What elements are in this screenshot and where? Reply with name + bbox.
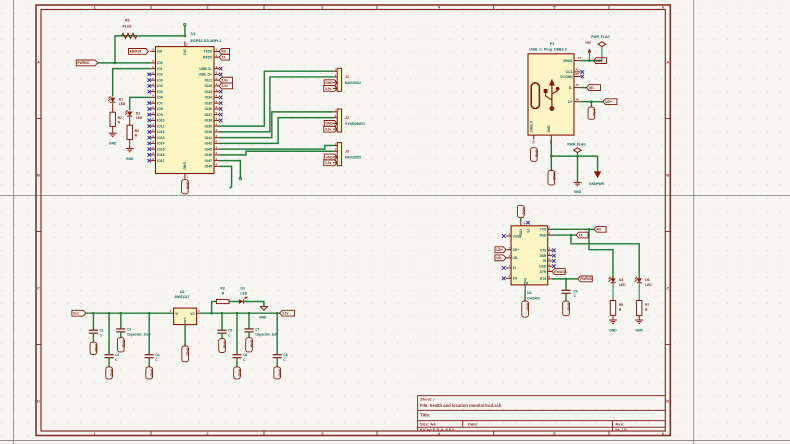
svg-text:RXD: RXD <box>540 233 547 237</box>
svg-text:LED: LED <box>136 116 143 120</box>
svg-text:R4: R4 <box>135 129 139 133</box>
capacitor C2 <box>108 312 111 315</box>
svg-text:D: D <box>666 399 669 404</box>
power label GND below U4 <box>522 301 529 317</box>
svg-text:RXD0: RXD0 <box>203 55 212 59</box>
global label TX at U4 <box>576 232 588 238</box>
wire U1-J1 pin1 <box>219 71 333 126</box>
svg-text:ESP32-S3-WIFI-1: ESP32-S3-WIFI-1 <box>191 38 223 43</box>
LED D1 <box>110 98 115 103</box>
svg-text:S1: S1 <box>531 141 535 145</box>
svg-text:PWR/IO: PWR/IO <box>580 277 593 281</box>
svg-text:DTR: DTR <box>540 270 547 274</box>
svg-text:3.3v: 3.3v <box>282 312 289 316</box>
global label GND at J2 <box>324 121 337 127</box>
svg-text:IO36: IO36 <box>205 107 212 111</box>
svg-text:P1: P1 <box>550 42 555 46</box>
wire U4 GND <box>524 289 526 300</box>
svg-text:IO37: IO37 <box>205 113 212 117</box>
global label EN/RST <box>129 49 149 55</box>
junction VBUS +5V <box>588 59 591 62</box>
svg-text:IO13: IO13 <box>157 136 164 140</box>
wire R2-GND <box>112 126 114 132</box>
svg-text:IO47: IO47 <box>205 159 212 163</box>
global label UD+ <box>603 99 617 105</box>
pin GND bottom <box>184 174 186 179</box>
svg-text:C: C <box>37 286 40 291</box>
global label 3.3v at U1 <box>219 83 233 89</box>
resistor R7 <box>637 301 642 316</box>
svg-text:VBUS: VBUS <box>563 59 573 63</box>
svg-text:KiCad E.D.A. 8.0.0: KiCad E.D.A. 8.0.0 <box>420 427 455 432</box>
wire U2 gnd <box>184 325 186 346</box>
power label GND below U2 <box>182 346 189 362</box>
pin GND P1 <box>550 135 552 139</box>
wire RXD to D6 <box>571 235 639 278</box>
svg-text:R3: R3 <box>221 287 225 291</box>
pin UD+ U4 <box>506 249 511 251</box>
svg-text:A4: A4 <box>578 56 582 60</box>
global label UD+ at U4 <box>495 247 506 253</box>
svg-text:IO17: IO17 <box>157 159 164 163</box>
global label GND at J1 <box>324 80 337 86</box>
capacitor C1 <box>92 312 95 315</box>
wire TXD to D4 <box>589 229 613 278</box>
svg-text:IO9: IO9 <box>157 113 163 117</box>
svg-text:C8: C8 <box>283 353 287 357</box>
svg-text:IO48: IO48 <box>205 165 212 169</box>
svg-text:IO41: IO41 <box>205 136 212 140</box>
pin D- <box>574 87 581 89</box>
svg-text:+5V: +5V <box>585 41 592 45</box>
svg-text:PLUS: PLUS <box>123 24 133 28</box>
junction TXD <box>588 228 591 231</box>
LED D4 <box>610 278 615 283</box>
junction RTS C9 <box>565 278 568 281</box>
svg-text:GND: GND <box>250 340 254 348</box>
svg-text:TXD: TXD <box>540 228 547 232</box>
svg-text:3.3v: 3.3v <box>325 161 332 165</box>
wire RTS <box>552 278 578 280</box>
svg-text:IO11: IO11 <box>157 124 164 128</box>
power GNDPWR <box>594 171 601 178</box>
junction PWR_FLAG bottom <box>576 155 579 158</box>
global label 5.0v at U1 <box>219 77 233 83</box>
global label RX at U4 <box>594 226 606 232</box>
axis horizontal <box>0 195 790 197</box>
svg-text:3.3v: 3.3v <box>325 87 332 91</box>
svg-text:IO45: IO45 <box>205 147 212 151</box>
svg-text:GND: GND <box>526 303 530 311</box>
wire R6-GND <box>612 315 614 319</box>
pin RTS <box>548 278 552 280</box>
wire D- <box>581 87 587 89</box>
global label UD- at U4 <box>495 255 506 261</box>
svg-text:IO1: IO1 <box>157 67 163 71</box>
svg-text:MAX30205: MAX30205 <box>345 156 361 160</box>
svg-text:MAX30102: MAX30102 <box>345 81 361 85</box>
global label PWR/IO <box>76 60 98 66</box>
svg-text:GND: GND <box>121 340 125 348</box>
svg-text:IO8: IO8 <box>157 107 163 111</box>
pin RXD U4 <box>548 234 552 236</box>
svg-text:IO10: IO10 <box>157 119 164 123</box>
svg-text:GND: GND <box>238 369 242 377</box>
power label VCC above U4 <box>518 205 525 217</box>
svg-text:C3: C3 <box>127 327 131 331</box>
svg-text:D-: D- <box>569 86 573 90</box>
svg-text:C5: C5 <box>228 329 232 333</box>
pin VBUS <box>574 60 581 62</box>
svg-text:U2: U2 <box>180 290 185 294</box>
wire 3V3 stub up <box>184 25 186 36</box>
svg-text:GND: GND <box>182 162 186 170</box>
svg-text:PWR/IO: PWR/IO <box>77 61 90 65</box>
svg-text:LED: LED <box>241 291 248 295</box>
junction RXD <box>570 234 573 237</box>
svg-text:EN: EN <box>157 50 162 54</box>
op-amp U1 ESP32 body <box>156 47 215 174</box>
svg-text:B5: B5 <box>576 72 580 76</box>
svg-text:DSR: DSR <box>540 254 547 258</box>
svg-text:IO3: IO3 <box>157 78 163 82</box>
svg-text:Vcc: Vcc <box>73 312 79 316</box>
svg-text:IO46: IO46 <box>205 153 212 157</box>
power flag PWR_FLAG bottom <box>577 152 579 156</box>
svg-text:UD-: UD- <box>589 86 595 90</box>
power label GND below P1 <box>548 171 555 185</box>
svg-text:GND: GND <box>574 190 582 194</box>
global label PWR/IO3 at U4 <box>578 276 593 282</box>
svg-text:D4: D4 <box>619 278 623 282</box>
svg-text:USB_D+: USB_D+ <box>199 73 212 77</box>
wire dangling IO47 <box>219 161 240 179</box>
page edge bottom <box>0 440 790 442</box>
svg-text:IO38: IO38 <box>205 119 212 123</box>
wire Vcc rail <box>86 312 171 314</box>
ground D2 <box>126 147 134 149</box>
pin XI <box>506 267 511 269</box>
capacitor C7 <box>248 312 251 315</box>
svg-text:RTS: RTS <box>540 277 546 281</box>
svg-text:B: B <box>37 173 40 178</box>
svg-text:R5: R5 <box>125 19 129 23</box>
svg-text:CTS: CTS <box>540 249 546 253</box>
svg-text:3.3v: 3.3v <box>221 84 228 88</box>
svg-text:LED: LED <box>119 102 126 106</box>
no-connect XI <box>502 266 506 270</box>
wire GND P1 down <box>550 140 552 171</box>
svg-text:IO7: IO7 <box>157 101 163 105</box>
svg-text:UD-: UD- <box>496 256 502 260</box>
resistor R5 <box>122 33 138 38</box>
svg-text:R7: R7 <box>645 303 649 307</box>
svg-text:GND: GND <box>325 122 333 126</box>
svg-text:J2: J2 <box>345 116 349 120</box>
svg-text:GND: GND <box>126 157 134 161</box>
global label TX at U1 <box>219 54 230 60</box>
svg-text:LED: LED <box>645 283 652 287</box>
svg-text:C: C <box>666 286 669 291</box>
svg-text:IO39: IO39 <box>205 124 212 128</box>
wire D+ <box>581 101 603 103</box>
pin XO <box>506 277 511 279</box>
wire dangling IO48 <box>219 166 232 188</box>
pin D+ <box>574 101 581 103</box>
global label GND at J3 <box>324 154 337 160</box>
wire D6-R7 <box>638 284 640 301</box>
global label Vcc <box>72 310 86 316</box>
wire PWR/IO to IO0 <box>98 62 151 64</box>
svg-text:C6: C6 <box>243 353 247 357</box>
svg-text:C4: C4 <box>155 353 159 357</box>
svg-text:C9: C9 <box>574 289 578 293</box>
global label 3.3v at J3 <box>324 160 338 166</box>
svg-text:EN/RST: EN/RST <box>130 50 142 54</box>
svg-text:D3: D3 <box>241 287 245 291</box>
no-connect CC1 <box>581 70 585 74</box>
pin 3V3 top <box>184 42 186 47</box>
junction D+ <box>590 100 593 103</box>
LED D2 <box>127 112 132 117</box>
resistor R2 <box>110 112 115 126</box>
svg-text:GND: GND <box>110 369 114 377</box>
power +5V <box>588 53 590 61</box>
junction R3 branch <box>210 312 213 315</box>
pin VCONN <box>574 76 581 78</box>
page edge left <box>13 0 15 444</box>
ground D4 <box>609 319 617 321</box>
wire U1-J1 pin2 <box>219 77 333 132</box>
svg-text:AMS1117: AMS1117 <box>175 295 190 299</box>
svg-text:UD+: UD+ <box>496 248 503 252</box>
svg-text:UD+: UD+ <box>605 100 612 104</box>
pin CTS <box>548 249 552 251</box>
LED D6 <box>637 278 642 283</box>
svg-text:R6: R6 <box>619 303 623 307</box>
svg-text:GND: GND <box>223 341 227 349</box>
USB receptacle glyph <box>531 83 539 109</box>
svg-text:D6: D6 <box>645 278 649 282</box>
power label GND below C9 <box>563 301 570 316</box>
USB connector P1 body <box>528 54 574 135</box>
wire D1 net <box>113 69 151 97</box>
svg-text:IO5: IO5 <box>157 90 163 94</box>
junction IO0 <box>114 62 117 65</box>
svg-text:Date:: Date: <box>468 422 478 427</box>
svg-text:A: A <box>37 60 40 65</box>
pin VDD top <box>520 221 522 226</box>
pin DCD <box>548 265 552 267</box>
pin SHIELD <box>533 135 535 139</box>
svg-text:IO35: IO35 <box>205 101 212 105</box>
svg-text:GND: GND <box>259 315 267 319</box>
svg-text:VCC: VCC <box>596 59 604 63</box>
title block frame <box>418 395 666 397</box>
connector J1 <box>337 68 341 91</box>
svg-text:EN/ACK: EN/ACK <box>554 270 567 274</box>
svg-text:IO4: IO4 <box>157 84 163 88</box>
svg-text:IO34: IO34 <box>205 96 212 100</box>
no-connect XO <box>502 277 506 281</box>
svg-text:GND: GND <box>547 125 551 133</box>
svg-text:CH340C: CH340C <box>527 296 541 300</box>
svg-text:VO: VO <box>190 312 195 316</box>
svg-text:Capacitor_1uF: Capacitor_1uF <box>255 332 277 336</box>
svg-text:VCC: VCC <box>521 207 525 215</box>
svg-text:DCD: DCD <box>539 265 547 269</box>
svg-text:XI: XI <box>513 266 516 270</box>
svg-text:UD+: UD+ <box>513 248 520 252</box>
wire R7-GND <box>638 315 640 319</box>
pin RI <box>548 260 552 262</box>
svg-text:GNDPWR: GNDPWR <box>589 182 605 186</box>
svg-text:RX: RX <box>221 50 226 54</box>
svg-text:3V3: 3V3 <box>182 49 186 55</box>
svg-text:IO6: IO6 <box>157 96 163 100</box>
svg-text:USB_C_Plug_USB2.0: USB_C_Plug_USB2.0 <box>529 47 567 51</box>
svg-text:GND: GND <box>609 328 617 332</box>
svg-text:PWR_FLAG: PWR_FLAG <box>567 143 586 147</box>
global label 3.3v at J2 <box>324 126 338 132</box>
pin UD- U4 <box>506 257 511 259</box>
svg-text:IO14: IO14 <box>157 142 164 146</box>
junction R5-3V3 <box>184 35 187 38</box>
USB trident logo <box>551 84 553 107</box>
svg-text:GND: GND <box>636 328 644 332</box>
ground D3 <box>260 307 267 311</box>
capacitor C9 <box>561 289 570 291</box>
wire R3-D3 <box>229 301 239 303</box>
svg-text:Id: 1/1: Id: 1/1 <box>616 427 628 432</box>
wire VBUS <box>581 60 602 62</box>
svg-text:GND: GND <box>185 181 189 189</box>
svg-text:IO33: IO33 <box>205 90 212 94</box>
svg-text:IO42: IO42 <box>205 142 212 146</box>
wire U1-J3 pin1 <box>219 146 333 150</box>
capacitor C8 <box>276 312 279 315</box>
svg-text:GND: GND <box>278 369 282 377</box>
IC U4 CH340 body <box>511 226 548 285</box>
global label EN/ACK at U4 <box>552 269 565 275</box>
svg-text:File: health and location moni: File: health and location monitor/cad.sc… <box>420 403 502 408</box>
pin VUSB <box>506 235 511 237</box>
global label RX at U1 <box>219 49 230 55</box>
svg-text:U1: U1 <box>191 31 197 36</box>
U1 right pins <box>214 50 219 52</box>
wire TXD <box>552 228 594 230</box>
wire R3 branch <box>212 302 217 314</box>
svg-text:IO16: IO16 <box>157 153 164 157</box>
svg-text:VCONN: VCONN <box>560 75 573 79</box>
U1 right no-connects <box>219 67 223 71</box>
sheet border inner <box>41 10 665 432</box>
svg-text:IO0: IO0 <box>157 61 163 65</box>
pin CC1 <box>574 71 581 73</box>
pin GND U4 bottom <box>524 285 526 289</box>
wire C9 to GND <box>565 293 567 300</box>
wire D4-R6 <box>612 284 614 301</box>
global label 3.3v right <box>280 310 295 316</box>
svg-text:XO: XO <box>513 277 518 281</box>
svg-text:J3: J3 <box>345 150 349 154</box>
svg-text:5.0v: 5.0v <box>221 78 228 82</box>
junction GND rail <box>550 155 553 158</box>
svg-text:IO40: IO40 <box>205 130 212 134</box>
global label VCC at VBUS <box>593 58 606 64</box>
svg-text:D2: D2 <box>136 112 140 116</box>
svg-text:RI: RI <box>543 259 546 263</box>
svg-text:R2: R2 <box>118 116 122 120</box>
svg-text:IO15: IO15 <box>157 147 164 151</box>
svg-text:U4: U4 <box>527 291 532 295</box>
LED D3 <box>239 299 244 304</box>
svg-text:GND: GND <box>552 172 556 180</box>
wire D1-R2 <box>112 103 114 112</box>
resistor R3 <box>216 299 229 303</box>
power label GND below U1 <box>182 180 189 194</box>
capacitor C5 <box>221 312 224 315</box>
svg-text:D: D <box>37 399 40 404</box>
pin U2 right <box>197 312 200 314</box>
ground USB rail <box>574 181 582 183</box>
svg-text:LED: LED <box>619 283 626 287</box>
svg-text:A5: A5 <box>576 68 580 72</box>
svg-text:J1: J1 <box>345 75 349 79</box>
pin U2 left <box>171 312 174 314</box>
svg-text:D+: D+ <box>568 100 572 104</box>
svg-text:IO2: IO2 <box>157 73 163 77</box>
wire R4-GND <box>129 139 131 148</box>
svg-text:Title:: Title: <box>420 413 431 418</box>
svg-text:Sheet: /: Sheet: / <box>420 397 435 402</box>
wire U1-J2 pin2 <box>219 118 333 144</box>
capacitor C3 <box>120 312 123 315</box>
capacitor C4 <box>148 312 151 315</box>
sheet border outer <box>36 5 670 436</box>
svg-text:USB_D-: USB_D- <box>199 67 212 71</box>
svg-text:D1: D1 <box>119 98 123 102</box>
wire U1-J2 pin1 <box>219 112 333 138</box>
svg-text:C7: C7 <box>255 327 259 331</box>
svg-text:GND: GND <box>150 369 154 377</box>
U1 left pins <box>151 50 156 52</box>
wire R5 net <box>115 36 185 63</box>
svg-text:C2: C2 <box>115 353 119 357</box>
svg-text:3.3v: 3.3v <box>325 127 332 131</box>
pin TXD U4 <box>548 228 552 230</box>
svg-text:CC1: CC1 <box>566 70 573 74</box>
svg-text:A: A <box>666 60 669 65</box>
power label GND below SHIELD <box>531 148 538 162</box>
capacitor C6 <box>236 312 239 315</box>
pin DTR <box>548 271 552 273</box>
svg-text:GND: GND <box>109 142 117 146</box>
wire D2 net <box>130 97 151 110</box>
svg-text:A6: A6 <box>576 97 580 101</box>
global label 3.3v at J1 <box>324 86 338 92</box>
U1 left no-connects <box>148 73 152 77</box>
regulator U2 body <box>174 308 197 325</box>
svg-text:IO26: IO26 <box>205 84 212 88</box>
wire RXD <box>552 234 576 236</box>
wire to GND arrow <box>577 156 579 182</box>
svg-text:RX: RX <box>597 228 602 232</box>
power flag PWR_FLAG top <box>601 46 603 60</box>
svg-text:GND: GND <box>534 150 538 158</box>
svg-text:B: B <box>666 173 669 178</box>
resistor R6 <box>610 301 615 316</box>
